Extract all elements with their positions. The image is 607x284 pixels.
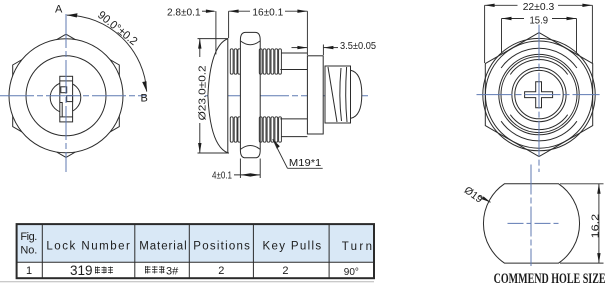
ext line 16 right / washer left (306, 11, 308, 55)
dim 16.2 ext top (560, 183, 604, 185)
dim 2.8 leader and arrow (202, 10, 214, 12)
hole centerline horizontal (508, 222, 561, 224)
thread root line bottom (281, 136, 307, 138)
column divider 2 (134, 224, 136, 278)
header background (17, 224, 374, 262)
svg-text:1: 1 (26, 265, 32, 277)
table outer border (17, 224, 374, 278)
angle dimension arc 90 degrees (67, 15, 147, 92)
row cell material (145, 266, 165, 274)
centerline middle view (205, 95, 368, 97)
dim Ø23 line (199, 39, 201, 57)
centerline vertical left view (65, 14, 67, 172)
svg-text:90°: 90° (344, 267, 359, 278)
right thread coil 2 (263, 49, 266, 74)
nut chamfer arc bottom (241, 145, 260, 149)
centerline horizontal left view (0, 95, 146, 97)
cam slot line 2 (346, 67, 347, 122)
double-D hole shape (483, 184, 579, 263)
dim 15.9 line (502, 18, 525, 20)
ext line flange face / 16 left (228, 11, 230, 38)
keyway circle (50, 82, 81, 113)
flange head dome profile (208, 39, 228, 153)
right thread coil 5 (275, 49, 278, 74)
key slot right notch (67, 96, 73, 102)
nut chamfer arc top (241, 41, 260, 45)
svg-text:3.5±0.05: 3.5±0.05 (340, 40, 376, 52)
svg-text:Turn: Turn (342, 241, 372, 253)
right thread coil 1 (259, 49, 262, 74)
arc arrow at B end (142, 81, 147, 91)
left thread coil 2 (234, 49, 237, 74)
dim 22±0.3 line (485, 4, 518, 6)
svg-text:A: A (55, 4, 63, 16)
core line top (280, 69, 307, 71)
cam outer arc bottom (501, 121, 577, 141)
dim 16±0.1 line (229, 10, 250, 12)
right thread coil 4 (271, 49, 274, 74)
cam outer arc top (501, 48, 577, 68)
key slot bottom cap line (60, 116, 73, 118)
svg-text:3#: 3# (166, 266, 179, 278)
right thread coil 3 (267, 49, 270, 74)
svg-text:22±0.3: 22±0.3 (523, 1, 555, 13)
circle r24.2 (515, 70, 563, 118)
hole centerline vertical (530, 165, 532, 267)
column divider 3 (188, 224, 190, 278)
arc arrow at A end (67, 13, 78, 17)
svg-text:2: 2 (282, 265, 288, 277)
ext line 2.8 left (215, 11, 217, 54)
circle r27.1 (512, 68, 566, 122)
key slot top cap line (60, 80, 73, 82)
cam inner arc bottom (510, 115, 567, 130)
chinese chars blob 1 (95, 267, 113, 274)
svg-text:Fig.: Fig. (20, 231, 37, 243)
svg-text:No.: No. (20, 245, 37, 257)
column divider 5 (328, 224, 330, 278)
phillips cross (525, 82, 553, 108)
core line bottom (280, 118, 307, 120)
header divider (17, 261, 374, 263)
svg-text:Lock Number: Lock Number (46, 240, 130, 252)
svg-text:Material: Material (139, 240, 187, 252)
centerline vertical right view (538, 25, 540, 172)
svg-text:4±0.1: 4±0.1 (212, 169, 232, 181)
svg-text:COMMEND HOLE SIZE: COMMEND HOLE SIZE (494, 271, 606, 284)
cam inner arc top (510, 60, 567, 75)
dim 3.5±0.05 arrows (292, 47, 308, 49)
svg-text:Ø23.0±0.2: Ø23.0±0.2 (197, 65, 209, 120)
dim 15.9 ext lines (501, 19, 503, 54)
dim Ø23 ext top (198, 38, 229, 40)
svg-text:2.8±0.1: 2.8±0.1 (167, 6, 201, 18)
right thread coil 6 (279, 49, 282, 74)
svg-text:Positions: Positions (193, 240, 250, 252)
flange circle behind hex (483, 38, 595, 150)
table shadow line (0, 281, 374, 283)
inner bezel circle (26, 56, 106, 136)
circle r38 (501, 57, 577, 133)
hex nut behind flange (tips visible) (13, 34, 120, 157)
svg-text:15.9: 15.9 (530, 14, 549, 26)
circle r40.2 (499, 54, 579, 134)
svg-text:M19*1: M19*1 (289, 157, 322, 169)
svg-text:319: 319 (70, 263, 93, 278)
left thread coil 1 (230, 49, 233, 74)
key slot left notch (61, 87, 67, 93)
key slot bottom-left step (60, 103, 62, 117)
dim 4±0.1 line and arrows (234, 174, 260, 176)
svg-text:90.0°±0.2: 90.0°±0.2 (95, 9, 139, 48)
cam body (325, 66, 351, 123)
dim 16.2 ext bottom (560, 262, 604, 264)
key slot body (60, 76, 73, 122)
M19*1 leader arrow (273, 139, 280, 149)
svg-text:16.2: 16.2 (589, 214, 601, 239)
flange outer circle (9, 39, 123, 153)
left thread coil 3 (238, 49, 241, 74)
washer (307, 56, 323, 134)
dim 16.2 line (598, 184, 600, 263)
cam diagonal edge (328, 67, 337, 122)
dim 4±0.1 ext lines (239, 159, 241, 179)
column divider 4 (252, 224, 254, 278)
nut chamfer circle (485, 41, 592, 148)
dome head (351, 70, 362, 118)
dim 22±0.3 ext lines (484, 5, 486, 63)
svg-text:Ø19: Ø19 (462, 184, 485, 206)
svg-text:Key Pulls: Key Pulls (263, 240, 322, 252)
cam slot line 1 (340, 68, 342, 121)
ext line 3.5 right (322, 45, 324, 56)
hex nut side view (240, 32, 260, 157)
dim Ø23 ext bottom (198, 152, 230, 154)
thread root line top (281, 52, 307, 54)
svg-text:16±0.1: 16±0.1 (252, 6, 283, 18)
centerline horizontal right view (477, 94, 600, 96)
column divider 1 (41, 224, 43, 278)
hexagon rear view (485, 33, 592, 157)
Ø19 leader (479, 196, 491, 203)
svg-text:2: 2 (218, 265, 224, 277)
svg-text:B: B (141, 93, 148, 105)
